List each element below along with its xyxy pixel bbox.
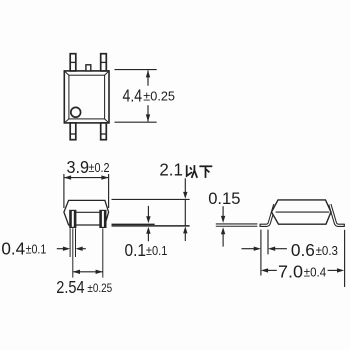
seating plane line (lower, long) bbox=[112, 225, 190, 227]
svg-text:0.4: 0.4 bbox=[1, 239, 25, 259]
dim 4.4 extension line bottom bbox=[115, 121, 157, 123]
svg-text:±0.2: ±0.2 bbox=[89, 160, 110, 175]
svg-text:±0.25: ±0.25 bbox=[143, 88, 175, 103]
pin 3 bend tick bbox=[101, 61, 107, 63]
front view lead centerlines lower (pitch extension) bbox=[72, 228, 74, 277]
dim 7.0 left arrow bbox=[261, 268, 268, 272]
svg-text:2.1: 2.1 bbox=[159, 160, 183, 180]
dim 3.9 line bbox=[64, 177, 109, 179]
side view right gull-wing lead bbox=[330, 204, 344, 225]
svg-text:±0.1: ±0.1 bbox=[146, 243, 168, 258]
front view left lead edge extensions bbox=[69, 228, 71, 257]
dim 7.0 right arrow bbox=[328, 269, 338, 271]
svg-text:3.9: 3.9 bbox=[67, 157, 90, 177]
dim 0.6 extension B (foot bend) bbox=[267, 230, 269, 255]
dim 4.4 leader upper bbox=[147, 70, 149, 85]
top view body outer outline bbox=[64, 71, 109, 123]
dim 4.4 extension line top bbox=[115, 69, 157, 71]
side view parting line bbox=[276, 211, 330, 213]
side view left gull-wing lead bbox=[260, 204, 275, 225]
front view: lead centerline left upper bbox=[72, 202, 74, 209]
svg-text:0.6: 0.6 bbox=[291, 240, 315, 260]
dim 7.0 extension right bbox=[344, 230, 346, 287]
dim 3.9 extension left bbox=[63, 174, 65, 208]
dim 2.54 arrowheads bbox=[73, 270, 80, 274]
svg-text:±0.25: ±0.25 bbox=[87, 281, 112, 295]
dim 0.6 left arrow bbox=[242, 248, 255, 250]
svg-text:±0.3: ±0.3 bbox=[316, 243, 338, 258]
top view chamfer corners bbox=[65, 71, 109, 123]
top view body inner outline bbox=[69, 75, 105, 119]
svg-text:4.4: 4.4 bbox=[123, 86, 143, 106]
2.1 top extension line bbox=[112, 198, 190, 200]
dim 2.54 line bbox=[73, 271, 103, 273]
pin 1 bend tick bbox=[70, 133, 76, 135]
svg-text:7.0: 7.0 bbox=[278, 262, 303, 282]
pin1 index circle bbox=[71, 107, 81, 117]
side view left foot tip edge bbox=[259, 224, 261, 227]
pin 1 (bottom-left lead, top view) bbox=[70, 123, 76, 140]
front view right lead bbox=[100, 210, 106, 227]
front view body hexagon bbox=[64, 200, 109, 225]
front view parting line bbox=[76, 211, 100, 213]
dim 0.4 left arrow bbox=[57, 248, 64, 250]
svg-text:±0.4: ±0.4 bbox=[304, 264, 326, 279]
lead cross-section lines (0.15 thickness) bbox=[216, 223, 258, 225]
front view: lead centerline right upper bbox=[102, 202, 104, 209]
pin 2 (bottom-right lead, top view) bbox=[101, 123, 107, 140]
pin 4 bend tick bbox=[70, 61, 76, 63]
dim 4.4 arrowhead down bbox=[146, 114, 150, 121]
dim 3.9 extension right bbox=[108, 174, 110, 208]
svg-text:±0.1: ±0.1 bbox=[26, 242, 47, 257]
side view right foot tip edge bbox=[343, 224, 345, 227]
dim 0.1 leader upper with down arrow bbox=[147, 206, 149, 217]
side view body hexagon bbox=[272, 200, 332, 224]
svg-text:0.15: 0.15 bbox=[208, 189, 240, 208]
svg-text:0.1: 0.1 bbox=[125, 240, 147, 260]
dim 0.1 lower up-arrow bbox=[146, 227, 150, 234]
dim 0.4 right arrow bbox=[83, 248, 86, 250]
dim 0.15 lower up-arrow bbox=[221, 227, 225, 234]
dim 4.4 arrowhead up bbox=[146, 70, 150, 77]
pin 4 (top-left lead, top view) bbox=[70, 54, 76, 71]
svg-text:2.54: 2.54 bbox=[56, 277, 84, 297]
dim 0.15 leader upper with down arrow bbox=[222, 206, 224, 216]
index notch at top center bbox=[86, 65, 91, 71]
dim 0.6 extension A (foot tip) bbox=[260, 230, 262, 276]
kanji 以 (ika = or less) bbox=[187, 165, 198, 178]
dim 4.4 leader lower bbox=[147, 105, 149, 121]
pin 2 bend tick bbox=[101, 133, 107, 135]
dim 3.9 arrowheads bbox=[64, 175, 71, 179]
dim 2.1 leader middle bbox=[184, 199, 186, 225]
pin 3 (top-right lead, top view) bbox=[101, 54, 107, 71]
seating plane: body bottom extension (upper of thick pair) bbox=[112, 223, 155, 225]
dim 0.6 right arrow bbox=[274, 248, 287, 250]
kanji 下 (shita) bbox=[199, 166, 212, 178]
dim 2.1 lower up-arrow bbox=[183, 226, 187, 233]
front view left lead bbox=[70, 210, 76, 227]
dim 2.1 leader upper with down arrow bbox=[184, 178, 186, 192]
